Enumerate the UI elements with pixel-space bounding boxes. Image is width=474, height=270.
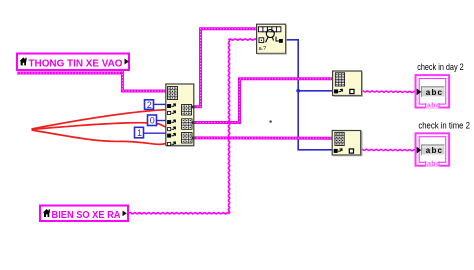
svg-text:1: 1 (137, 128, 142, 138)
indicator: check in time 2 (416, 121, 470, 168)
junction: blue wire branch dot (296, 89, 300, 93)
wire: label to cluster node array input (122, 71, 165, 91)
svg-text:abc: abc (426, 88, 443, 97)
svg-text:0: 0 (150, 116, 155, 126)
wire: Search 1D Array index output (286, 40, 333, 150)
constant 2 (145, 100, 154, 110)
wire: BIEN SO XE RA to Search 1D Array element input (129, 39, 256, 214)
wire: Index Array 1 output to check in day 2 (362, 91, 416, 93)
wire: node row1 output riser to Search 1D Array input (194, 29, 257, 107)
node: Index Array 1 (333, 71, 363, 96)
svg-text:abc: abc (427, 103, 440, 110)
wire: broken red wire 1 (32, 110, 166, 129)
label: THONG TIN XE VAO (17, 54, 129, 71)
wire: THONG TIN XE VAO label underline (17, 72, 123, 75)
svg-text:a.?: a.? (259, 46, 267, 52)
svg-text:abc: abc (426, 146, 443, 155)
wire: node row2 output riser to Index Array 1 input (194, 79, 333, 123)
stray dot (269, 120, 271, 122)
wire: numeric constant 1 to node (144, 132, 166, 134)
node: Index Array 2 (332, 131, 362, 156)
svg-text:2: 2 (147, 100, 152, 110)
wire: Index Array 2 output to check in time 2 (361, 149, 416, 151)
svg-text:abc: abc (427, 161, 440, 168)
node: Search 1D Array (257, 24, 287, 54)
svg-text:BIEN SO XE RA: BIEN SO XE RA (52, 209, 121, 221)
wire: numeric constant 0 to node (157, 120, 166, 122)
svg-text:check in day 2: check in day 2 (417, 62, 464, 72)
node: Index Array (expanded, 3 rows) (166, 84, 195, 146)
svg-text:check in time 2: check in time 2 (418, 121, 470, 131)
wire: broken red wire 3 (32, 130, 166, 144)
constant 0 (148, 115, 157, 126)
indicator: check in day 2 (416, 62, 464, 110)
label: BIEN SO XE RA (40, 206, 128, 222)
wire: node row3 output to Index Array 2 input (194, 136, 332, 139)
wire: broken red wire 2 (32, 123, 166, 130)
svg-text:THONG TIN XE VAO: THONG TIN XE VAO (29, 57, 123, 69)
constant 1 (135, 127, 144, 138)
wire: numeric constant 2 to node (154, 103, 166, 105)
